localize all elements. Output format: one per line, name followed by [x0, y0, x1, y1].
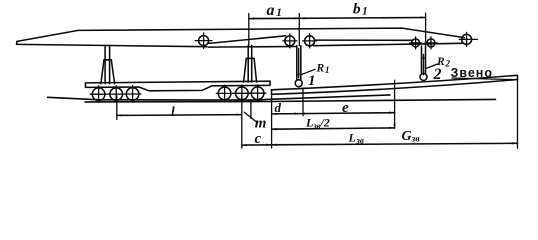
bogie bar bottom edge — [86, 85, 271, 90]
chord line roller A to pin B — [209, 36, 286, 44]
extension line l left — [116, 96, 118, 120]
dimension a1 — [249, 17, 299, 20]
svg-text:c: c — [255, 131, 262, 147]
hanger 2 — [420, 46, 427, 81]
bar right end cap — [269, 81, 271, 85]
dimension Lzv/2 — [272, 127, 395, 131]
extension line post2 center — [250, 101, 252, 119]
track link right edge — [517, 75, 519, 79]
svg-text:l: l — [171, 104, 175, 119]
bar left end cap — [85, 83, 87, 88]
road wheel 1 — [90, 86, 107, 103]
dimension l — [117, 113, 242, 116]
svg-text:Gзв: Gзв — [402, 129, 421, 145]
band top line C to D — [315, 39, 412, 41]
pin B — [283, 34, 297, 48]
roller D — [410, 37, 422, 49]
track link left edge — [271, 90, 273, 95]
support post 2 — [244, 45, 257, 82]
extension line b1 right — [425, 13, 427, 46]
svg-text:e: e — [342, 100, 349, 116]
dimension b1 — [299, 16, 425, 19]
hanger 1 — [295, 46, 302, 87]
track surface line — [48, 95, 391, 100]
beam left tip — [16, 41, 18, 44]
extension line a1 left — [248, 14, 250, 47]
beam top edge — [17, 28, 464, 41]
extension line l right — [241, 96, 243, 149]
weight vector G — [393, 80, 395, 129]
dimension Lzv — [272, 142, 518, 146]
track link bottom edge — [272, 80, 518, 95]
svg-text:m: m — [255, 116, 267, 132]
svg-text:Звено: Звено — [451, 66, 494, 80]
roller E — [425, 37, 437, 49]
dimension c — [242, 144, 272, 147]
svg-text:Lзв: Lзв — [348, 131, 364, 146]
extension line link right — [517, 78, 519, 148]
ground line — [85, 99, 496, 102]
road wheel 4 — [216, 85, 233, 102]
extension line d e — [302, 89, 304, 116]
road wheel 6 — [249, 85, 266, 102]
svg-text:b1: b1 — [353, 2, 368, 18]
radius arrow R2 — [422, 53, 424, 74]
dimension e — [300, 112, 395, 115]
extension line a1 b1 middle — [298, 14, 300, 46]
road wheel 2 — [108, 86, 125, 103]
leader zveno — [452, 78, 517, 80]
idler F — [459, 32, 477, 46]
extension line link left — [271, 96, 273, 148]
svg-text:d: d — [275, 100, 282, 115]
beam bottom edge — [17, 44, 207, 46]
track link top edge — [272, 75, 518, 90]
leader R1 — [302, 69, 315, 74]
leader m — [244, 112, 257, 123]
radius arrow R1 — [298, 49, 300, 80]
roller A — [195, 33, 212, 48]
svg-text:2: 2 — [433, 66, 442, 83]
pin C — [303, 34, 317, 48]
svg-text:Lзв/2: Lзв/2 — [305, 116, 330, 131]
band bottom line to idler — [314, 43, 462, 45]
svg-text:R1: R1 — [316, 62, 330, 75]
dimension d — [272, 112, 300, 115]
under line below pins B C — [209, 46, 297, 49]
leader R2 — [426, 64, 438, 69]
bogie bar top edge — [86, 81, 271, 83]
road wheel 3 — [124, 86, 141, 103]
road wheel 5 — [234, 85, 251, 102]
svg-text:a1: a1 — [267, 2, 283, 19]
svg-text:1: 1 — [308, 73, 316, 89]
support post 1 — [101, 45, 115, 83]
